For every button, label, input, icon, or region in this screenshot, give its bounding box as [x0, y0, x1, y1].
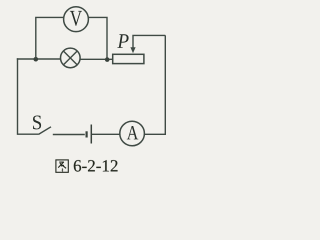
wire: switch right terminal to battery [53, 134, 85, 136]
label V of voltmeter [70, 11, 82, 26]
caption glyph: hanzi tu (drawn strokes) [56, 160, 68, 172]
battery cell: short negative plate [85, 131, 87, 137]
label P [117, 34, 128, 48]
wire: left vertical + bottom-left segment to switch pivot [18, 58, 39, 134]
switch S blade [39, 127, 52, 135]
wire: voltmeter branch up and across [36, 17, 64, 59]
wire: voltmeter right to corner, down to junction [88, 17, 107, 59]
voltmeter V1 circle [64, 7, 89, 32]
ammeter A1 circle [120, 121, 145, 146]
node: junction dot right [105, 57, 110, 62]
lamp EL1 circle with cross [61, 48, 81, 68]
label S [33, 116, 41, 130]
resistor P rheostat body [113, 54, 144, 63]
wire: right vertical side [144, 35, 165, 134]
node: junction dot left (voltmeter tap) [34, 57, 39, 62]
wire: battery to ammeter [92, 133, 120, 135]
arrowhead of rheostat slider [130, 47, 135, 53]
label A of ammeter [127, 126, 139, 139]
wire: lamp right segment to junction and rheostat [80, 58, 113, 60]
caption text 6-2-12 [74, 160, 118, 172]
wire: lamp row left segment [17, 58, 61, 60]
battery cell: long positive plate [90, 125, 92, 144]
wire: slider arm horizontal and arrow shaft [133, 35, 165, 48]
